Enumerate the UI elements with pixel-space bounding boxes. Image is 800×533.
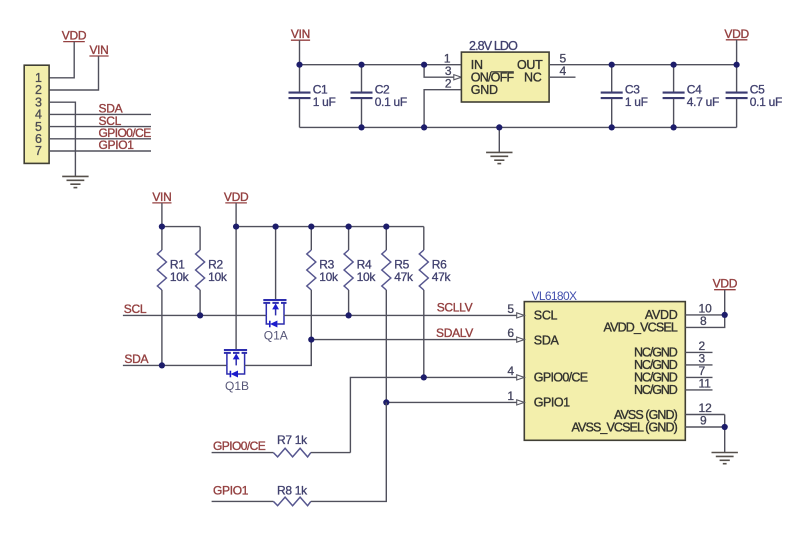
wire pin6 GPIO0/CE — [49, 138, 151, 140]
svg-text:1 uF: 1 uF — [313, 95, 336, 109]
svg-text:VIN: VIN — [89, 43, 108, 57]
wire NC stub pin2 — [685, 351, 712, 353]
IC right pin names — [572, 308, 678, 435]
resistor R6 — [419, 227, 451, 378]
wire pin3 to ground — [49, 102, 75, 176]
svg-text:Q1A: Q1A — [264, 328, 288, 342]
svg-text:2: 2 — [445, 77, 452, 91]
power symbol VDD (connector) — [62, 29, 87, 43]
wire NC stub pin11 — [685, 389, 712, 391]
svg-text:SCLLV: SCLLV — [437, 301, 473, 315]
wire pin2 to VIN — [49, 56, 98, 90]
wire NC stub pin7 — [685, 376, 712, 378]
wire R8 right — [311, 402, 387, 501]
pin marker ON/OFF — [454, 75, 462, 80]
wire Q1B drain to SDALV — [245, 340, 312, 366]
svg-text:VDD: VDD — [713, 277, 738, 291]
svg-text:4.7 uF: 4.7 uF — [687, 95, 719, 109]
wire bottom rail (caps ground) — [300, 126, 737, 128]
svg-text:6: 6 — [507, 326, 514, 340]
svg-text:0.1 uF: 0.1 uF — [750, 95, 782, 109]
svg-text:SCL: SCL — [534, 309, 558, 323]
wire VDD down to Q1B gate — [235, 203, 237, 351]
svg-text:R8 1k: R8 1k — [277, 483, 308, 497]
svg-text:VIN: VIN — [291, 27, 310, 41]
pin marker GPIO0/CE — [517, 375, 525, 380]
power symbol VDD (top right) — [724, 27, 749, 41]
LDO pin names — [471, 58, 543, 97]
svg-text:11: 11 — [699, 376, 712, 390]
capacitor C2 — [351, 65, 407, 128]
resistor R1 — [157, 227, 189, 366]
wire ground drop — [498, 127, 500, 152]
svg-text:GPIO1: GPIO1 — [213, 483, 249, 497]
svg-text:10k: 10k — [170, 270, 190, 284]
svg-text:R7 1k: R7 1k — [277, 433, 308, 447]
svg-text:2.8V LDO: 2.8V LDO — [469, 39, 518, 53]
capacitor C3 — [601, 65, 648, 128]
IC U1 VL6180X box — [524, 302, 685, 441]
svg-text:NC/GND: NC/GND — [634, 383, 678, 397]
pin marker SCL — [517, 313, 525, 318]
LDO pin numbers — [444, 52, 567, 91]
svg-text:10k: 10k — [319, 270, 339, 284]
resistor R2 — [196, 227, 228, 316]
wire SCLLV — [284, 314, 517, 316]
ground (LDO section) — [486, 152, 512, 163]
svg-text:4: 4 — [507, 364, 514, 378]
power symbol VDD (pull-ups) — [224, 190, 249, 204]
wire NC stub pin3 — [685, 364, 712, 366]
junction dots top section — [296, 62, 739, 131]
svg-text:0.1 uF: 0.1 uF — [375, 95, 407, 109]
transistor Q1A — [263, 227, 286, 328]
svg-text:AVSS_VCSEL (GND): AVSS_VCSEL (GND) — [572, 421, 678, 435]
svg-text:SDALV: SDALV — [436, 326, 473, 340]
svg-text:9: 9 — [700, 414, 707, 428]
resistor R3 — [307, 227, 339, 366]
svg-text:AVDD_VCSEL: AVDD_VCSEL — [604, 321, 678, 335]
svg-text:VDD: VDD — [62, 29, 87, 43]
capacitor C1 — [289, 65, 336, 128]
svg-text:10k: 10k — [357, 270, 377, 284]
power symbol VDD (IC) — [713, 277, 738, 291]
svg-text:GND: GND — [471, 83, 498, 97]
wire LDO OUT rail — [549, 64, 737, 66]
wire SDA — [123, 364, 227, 366]
wire SCL — [123, 314, 266, 316]
svg-text:SDA: SDA — [534, 334, 560, 348]
svg-text:5: 5 — [507, 302, 514, 316]
wire ON/OFF tie — [424, 65, 454, 78]
wire pin1 to VDD — [49, 42, 74, 78]
resistor R7 — [273, 433, 310, 457]
wire pin7 GPIO1 — [49, 150, 151, 152]
svg-text:8: 8 — [700, 314, 707, 328]
wire SDALV — [311, 339, 516, 341]
svg-text:SCL: SCL — [124, 302, 147, 316]
wire pin8 AVDD_VCSEL — [685, 315, 724, 328]
connector J1 box — [24, 65, 49, 163]
wire VDD down to pin10 — [724, 290, 726, 315]
svg-text:47k: 47k — [394, 270, 414, 284]
ground (IC) — [712, 453, 738, 464]
connector pin numbers — [35, 71, 42, 158]
svg-text:4: 4 — [560, 64, 567, 78]
wire pin9 AVSS_VCSEL — [685, 426, 724, 428]
wire VIN down to rail — [161, 203, 163, 227]
wire pin10 AVDD — [685, 314, 724, 316]
wire IC ground drop — [724, 415, 726, 453]
wire R7 right — [311, 452, 351, 454]
wire pin12 AVSS — [685, 414, 724, 416]
wire top rail to LDO IN — [300, 64, 462, 66]
junction dots pull-up section — [159, 224, 427, 406]
svg-text:10k: 10k — [208, 270, 228, 284]
wire VIN rail — [162, 226, 200, 228]
power symbol VIN (connector) — [89, 43, 108, 57]
capacitor C5 — [726, 65, 782, 128]
IC right pin numbers — [699, 301, 713, 427]
svg-text:1: 1 — [507, 389, 514, 403]
IC left pin names — [534, 309, 588, 410]
wire VDD rail — [236, 226, 424, 228]
svg-text:NC: NC — [524, 71, 542, 85]
wire LDO GND — [424, 90, 461, 128]
pin marker SDA — [517, 337, 525, 342]
svg-text:GPIO0/CE: GPIO0/CE — [534, 371, 588, 385]
power symbol VIN (pull-ups) — [152, 190, 171, 204]
wire GPIO1 net — [386, 401, 516, 403]
wire R7 left — [212, 452, 274, 454]
svg-text:VDD: VDD — [724, 27, 749, 41]
IC left pin numbers — [507, 302, 514, 403]
wire NC stub — [549, 76, 575, 78]
ground (connector) — [62, 176, 88, 187]
svg-text:VIN: VIN — [152, 190, 171, 204]
pin marker GPIO1 — [517, 400, 525, 405]
resistor R5 — [382, 227, 414, 403]
regulator U2 box — [461, 52, 549, 102]
capacitor C4 — [663, 65, 719, 128]
wire pin4 SDA — [49, 113, 151, 115]
svg-text:Q1B: Q1B — [225, 379, 249, 393]
wire R8 left — [212, 500, 274, 502]
svg-text:GPIO1: GPIO1 — [534, 396, 570, 410]
svg-text:VL6180X: VL6180X — [532, 289, 578, 303]
wire GPIO0/CE net — [350, 377, 516, 452]
wire VIN down — [299, 40, 301, 64]
transistor Q1B — [224, 350, 247, 378]
svg-text:47k: 47k — [432, 270, 452, 284]
svg-text:7: 7 — [35, 144, 42, 158]
svg-text:SDA: SDA — [124, 352, 148, 366]
resistor R4 — [344, 227, 376, 316]
wire pin5 SCL — [49, 126, 151, 128]
resistor R8 — [273, 483, 310, 505]
wire VDD down — [736, 40, 738, 65]
svg-text:1 uF: 1 uF — [625, 95, 648, 109]
power symbol VIN (LDO input) — [291, 27, 310, 41]
svg-text:VDD: VDD — [224, 190, 249, 204]
svg-text:GPIO1: GPIO1 — [99, 138, 135, 152]
svg-text:GPIO0/CE: GPIO0/CE — [213, 439, 266, 453]
junction dots IC section — [722, 312, 728, 430]
